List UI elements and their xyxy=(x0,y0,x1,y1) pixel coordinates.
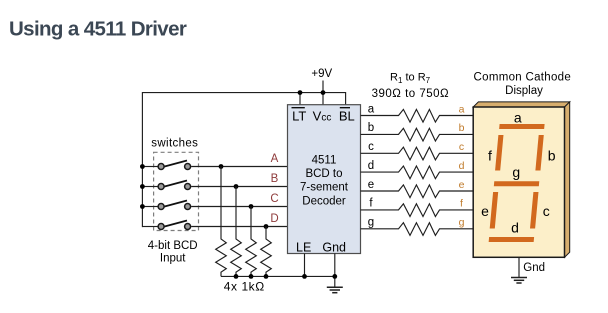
segment d bar xyxy=(489,237,534,242)
label Common Cathode Display xyxy=(474,71,572,97)
node junction row B pull-down tap xyxy=(234,184,239,189)
svg-text:e: e xyxy=(368,179,374,191)
label 4-bit BCD Input xyxy=(148,240,198,264)
resistor pull-down 2 (1k) xyxy=(231,187,242,277)
node junction on top rail at Vcc xyxy=(321,90,326,95)
svg-text:BCD to: BCD to xyxy=(305,168,342,180)
resistor R4 (segment d) with wire xyxy=(361,166,475,179)
resistor R1 (segment a) with wire xyxy=(361,109,475,122)
node rail junction row A xyxy=(140,164,145,169)
svg-text:R1 to R7: R1 to R7 xyxy=(390,72,431,85)
pin label Vcc xyxy=(313,108,332,123)
wire row D left segment xyxy=(142,226,157,228)
segment c bar xyxy=(530,192,538,229)
wire left bus rail xyxy=(142,93,345,228)
wire LE to rail xyxy=(304,254,306,277)
segment b bar xyxy=(535,135,543,171)
display 3D bevel top xyxy=(473,102,570,107)
pin label BL (active low) xyxy=(339,108,355,124)
svg-text:7-sement: 7-sement xyxy=(300,182,349,194)
wire LT stub xyxy=(299,93,301,105)
resistor R2 (segment b) with wire xyxy=(361,128,475,141)
switch S4 (D) xyxy=(158,221,191,230)
svg-text:d: d xyxy=(368,160,374,172)
wire +9V supply stub xyxy=(322,81,324,93)
wire row B left segment xyxy=(142,186,157,188)
wire row C left segment xyxy=(142,206,157,208)
node rail junction resistor bottom xyxy=(234,274,239,279)
svg-text:g: g xyxy=(512,164,520,180)
svg-text:390Ω to 750Ω: 390Ω to 750Ω xyxy=(372,88,450,100)
svg-text:C: C xyxy=(270,193,278,205)
ground symbol below decoder xyxy=(327,287,343,293)
resistor R7 (segment g) with wire xyxy=(361,223,475,236)
resistor R3 (segment c) with wire xyxy=(361,147,475,160)
label R1 to R7 xyxy=(390,72,431,85)
resistor R6 (segment f) with wire xyxy=(361,204,475,217)
svg-text:a: a xyxy=(514,110,522,126)
wire Gnd pin down xyxy=(334,254,336,288)
svg-text:a: a xyxy=(368,103,375,115)
switch S2 (B) xyxy=(158,181,191,190)
node rail junction resistor bottom xyxy=(249,274,254,279)
svg-text:4511: 4511 xyxy=(312,155,337,167)
svg-text:b: b xyxy=(459,122,465,134)
switch S3 (C) xyxy=(158,201,191,210)
node junction Gnd rail xyxy=(332,274,337,279)
svg-text:+9V: +9V xyxy=(311,68,332,80)
ground symbol below display xyxy=(511,278,527,284)
pin label LT (active low) xyxy=(292,108,307,124)
IC U1 4511 BCD to 7-segment decoder body xyxy=(288,105,361,254)
svg-text:Input: Input xyxy=(160,252,186,264)
svg-text:g: g xyxy=(459,217,465,229)
svg-text:d: d xyxy=(459,160,465,172)
svg-text:Common Cathode: Common Cathode xyxy=(474,71,572,83)
resistor pull-down 1 (1k) xyxy=(216,167,227,277)
segment f bar xyxy=(495,135,503,171)
svg-text:Display: Display xyxy=(505,85,543,97)
svg-text:BL: BL xyxy=(339,108,355,123)
svg-text:V: V xyxy=(313,108,322,123)
svg-text:switches: switches xyxy=(151,137,198,149)
display body face xyxy=(473,107,564,257)
wire Vcc stub xyxy=(322,93,324,105)
switch S1 (A) xyxy=(158,161,191,170)
svg-text:b: b xyxy=(368,122,374,134)
svg-text:Gnd: Gnd xyxy=(523,262,545,274)
svg-text:e: e xyxy=(459,179,465,191)
resistor R5 (segment e) with wire xyxy=(361,185,475,198)
resistor pull-down 4 (1k) xyxy=(261,227,272,277)
svg-text:A: A xyxy=(271,153,279,165)
svg-text:b: b xyxy=(548,147,556,163)
wire row A to decoder xyxy=(191,166,287,168)
svg-text:c: c xyxy=(368,141,374,153)
svg-text:LE: LE xyxy=(296,240,311,254)
node rail junction row C xyxy=(140,204,145,209)
svg-text:B: B xyxy=(271,173,279,185)
wire row A left segment xyxy=(142,166,157,168)
svg-text:cc: cc xyxy=(321,112,331,123)
svg-text:f: f xyxy=(460,198,463,210)
display 3D bevel right xyxy=(565,102,570,257)
svg-text:4-bit BCD: 4-bit BCD xyxy=(148,240,198,252)
node junction LE rail xyxy=(302,274,307,279)
wire bottom ground rail xyxy=(221,275,335,277)
resistor pull-down 3 (1k) xyxy=(246,207,257,277)
svg-text:c: c xyxy=(543,203,550,219)
wire row D to decoder xyxy=(191,226,287,228)
node junction row C pull-down tap xyxy=(249,204,254,209)
switch enclosure dashed box xyxy=(154,152,199,230)
node junction row A pull-down tap xyxy=(219,164,224,169)
svg-text:e: e xyxy=(481,203,489,219)
node rail junction row B xyxy=(140,184,145,189)
svg-text:Gnd: Gnd xyxy=(322,240,346,254)
segment e bar xyxy=(490,192,498,229)
label IC name 4511 BCD to 7-sement Decoder xyxy=(300,155,349,208)
wire display cathode down xyxy=(518,257,520,277)
svg-text:Decoder: Decoder xyxy=(302,196,346,208)
svg-text:Using a 4511 Driver: Using a 4511 Driver xyxy=(9,18,187,41)
wire row C to decoder xyxy=(191,206,287,208)
svg-text:d: d xyxy=(511,219,519,235)
svg-text:f: f xyxy=(488,147,492,163)
node junction on top rail at LT xyxy=(298,90,303,95)
svg-text:a: a xyxy=(459,103,465,115)
segment a bar xyxy=(499,124,544,129)
segment g bar xyxy=(494,181,539,186)
svg-text:LT: LT xyxy=(292,108,306,123)
node junction row D pull-down tap xyxy=(264,224,269,229)
seven-segment digit segments xyxy=(488,124,544,242)
svg-text:D: D xyxy=(270,213,278,225)
svg-text:c: c xyxy=(459,141,464,153)
wire row B to decoder xyxy=(191,186,287,188)
svg-text:4x 1kΩ: 4x 1kΩ xyxy=(224,279,265,293)
svg-text:g: g xyxy=(368,217,374,229)
node rail junction resistor bottom xyxy=(264,274,269,279)
